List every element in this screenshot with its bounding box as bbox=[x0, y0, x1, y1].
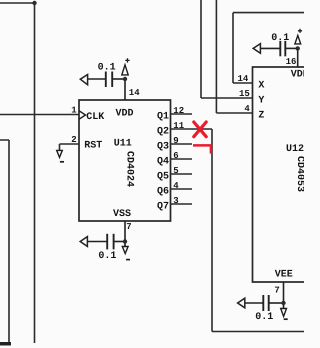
svg-text:0.1: 0.1 bbox=[98, 251, 116, 262]
wire Q5 bbox=[171, 173, 193, 175]
node A bbox=[32, 1, 36, 5]
wire Y net bbox=[201, 0, 253, 98]
node VDD14 bbox=[123, 77, 127, 81]
svg-text:0.1: 0.1 bbox=[271, 33, 289, 44]
svg-text:Q1: Q1 bbox=[157, 112, 169, 123]
svg-text:Q5: Q5 bbox=[157, 172, 169, 183]
power +plus symbol bbox=[295, 29, 302, 44]
svg-text:X: X bbox=[258, 80, 264, 91]
svg-text:VEE: VEE bbox=[275, 270, 293, 281]
wire Q3 bbox=[171, 143, 193, 145]
svg-text:RST: RST bbox=[84, 141, 102, 152]
svg-text:0.1: 0.1 bbox=[255, 312, 273, 323]
wire Q4 bbox=[171, 158, 193, 160]
op-amp U11 CD4024 box bbox=[79, 100, 171, 221]
annotation red wire bbox=[193, 145, 211, 153]
node VSS7 bbox=[123, 239, 127, 243]
svg-text:7: 7 bbox=[126, 222, 131, 232]
wire Q2 net bbox=[212, 129, 304, 332]
capacitor C4 0.1 (U12 VEE) bbox=[238, 282, 284, 311]
svg-text:1: 1 bbox=[71, 105, 77, 115]
power -minus RST bbox=[57, 150, 64, 161]
wire Q6 bbox=[171, 188, 193, 190]
svg-text:CD4024: CD4024 bbox=[123, 151, 134, 187]
svg-text:4: 4 bbox=[244, 104, 250, 114]
svg-text:15: 15 bbox=[239, 89, 250, 99]
power -minus symbol bbox=[122, 244, 130, 260]
svg-text:VDD: VDD bbox=[291, 70, 304, 81]
svg-text:U11: U11 bbox=[114, 138, 132, 149]
svg-text:14: 14 bbox=[237, 74, 248, 84]
svg-text:7: 7 bbox=[274, 285, 279, 295]
svg-text:CD4053: CD4053 bbox=[294, 156, 304, 192]
wire Q7 bbox=[171, 203, 193, 205]
svg-text:Z: Z bbox=[258, 110, 264, 121]
node VDD16 bbox=[296, 46, 300, 50]
svg-text:Y: Y bbox=[258, 95, 264, 106]
node VEE7 bbox=[281, 301, 285, 305]
capacitor C3 0.1 (U12 VDD) bbox=[253, 41, 298, 67]
svg-text:VDD: VDD bbox=[115, 109, 133, 120]
wire Z net bbox=[216, 0, 252, 113]
wire bbox=[0, 342, 11, 346]
wire Q2 bbox=[171, 128, 213, 130]
svg-text:Q7: Q7 bbox=[157, 202, 169, 213]
svg-text:VSS: VSS bbox=[113, 209, 131, 220]
svg-text:2: 2 bbox=[71, 135, 76, 145]
svg-text:0.1: 0.1 bbox=[98, 63, 116, 74]
wire bbox=[0, 114, 79, 116]
power +plus symbol bbox=[122, 58, 130, 75]
capacitor C2 0.1 (U11 VSS) bbox=[80, 221, 125, 249]
power -minus symbol bbox=[281, 305, 288, 319]
svg-text:Q6: Q6 bbox=[157, 187, 169, 198]
op-amp U12 CD4053 box bbox=[253, 67, 308, 282]
svg-text:Q4: Q4 bbox=[157, 157, 169, 168]
wire X net bbox=[233, 13, 304, 83]
svg-text:U12: U12 bbox=[286, 144, 304, 155]
svg-text:16: 16 bbox=[286, 57, 297, 67]
wire bbox=[0, 3, 35, 343]
svg-text:Q3: Q3 bbox=[157, 142, 169, 153]
wire bbox=[60, 144, 80, 150]
wire Q1 bbox=[171, 113, 193, 115]
wire bbox=[0, 140, 9, 343]
capacitor C1 0.1 (U11 VDD) bbox=[80, 72, 125, 101]
svg-text:14: 14 bbox=[129, 88, 140, 98]
svg-text:CLK: CLK bbox=[86, 112, 104, 123]
svg-text:Q2: Q2 bbox=[157, 127, 169, 138]
clock input symbol bbox=[79, 111, 85, 119]
annotation red X bbox=[194, 122, 206, 137]
